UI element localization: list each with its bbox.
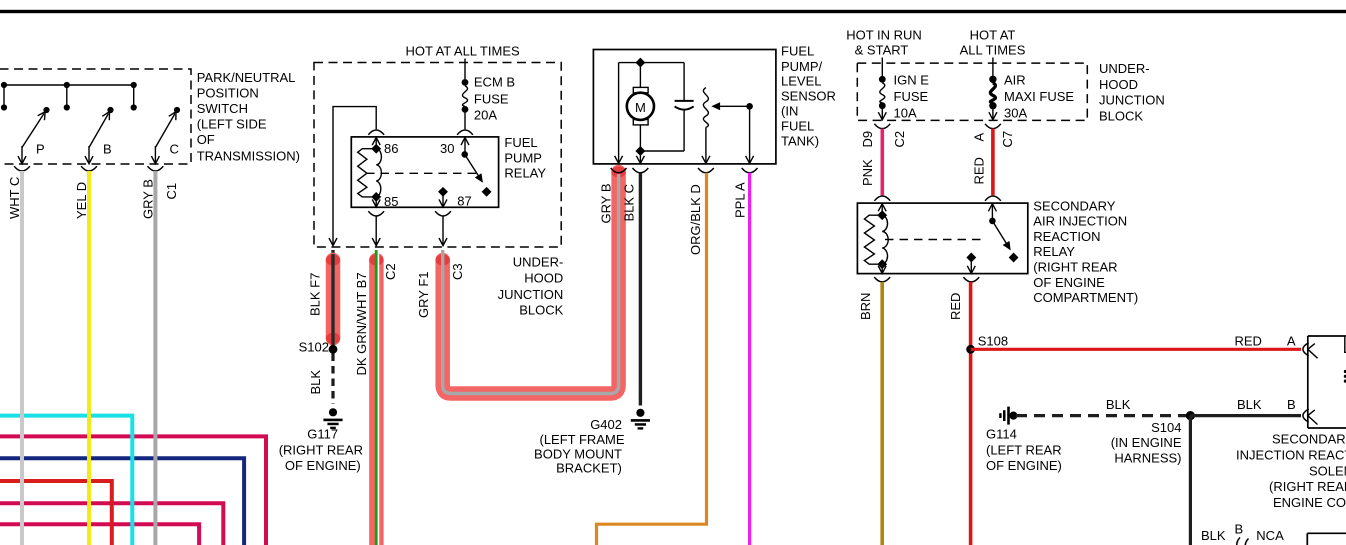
bus stub 3 — [133, 85, 135, 108]
svg-text:S108: S108 — [978, 333, 1008, 348]
svg-text:10A: 10A — [894, 106, 917, 121]
svg-text:UNDER-: UNDER- — [1099, 61, 1150, 76]
fuse AIR MAXI 30A — [989, 76, 996, 83]
fuse IGN E 10A — [879, 76, 886, 83]
svg-text:B: B — [1287, 397, 1296, 412]
wire 85 down — [375, 216, 377, 245]
wire red (horiz y481 corner x112) — [0, 481, 112, 545]
svg-text:ENGINE COMPARTMENT: ENGINE COMPARTMENT — [1273, 495, 1346, 510]
switch C terminal arrow — [154, 146, 156, 163]
svg-text:FUEL: FUEL — [781, 119, 814, 134]
secondary air injection reaction relay box — [857, 203, 1027, 274]
svg-text:(LEFT SIDE: (LEFT SIDE — [197, 117, 267, 132]
wire BRN — [880, 282, 884, 545]
svg-text:REACTION: REACTION — [1033, 229, 1100, 244]
wire PPL A — [748, 173, 751, 545]
svg-text:B: B — [103, 142, 112, 157]
svg-text:HOT AT ALL TIMES: HOT AT ALL TIMES — [406, 43, 520, 58]
svg-text:87: 87 — [457, 194, 471, 209]
switch P terminal arrow — [21, 146, 23, 163]
svg-text:SECONDARY: SECONDARY — [1033, 198, 1115, 213]
svg-text:TANK): TANK) — [781, 133, 819, 148]
svg-text:POSITION: POSITION — [197, 86, 259, 101]
wire fuse to relay 30 — [464, 109, 466, 129]
bus wire — [4, 84, 134, 86]
svg-text:BLK F7: BLK F7 — [308, 273, 323, 316]
svg-text:B: B — [1235, 522, 1244, 537]
wire crimson 3 (horiz y524 corner x199) — [0, 524, 199, 545]
svg-text:IGN E: IGN E — [894, 73, 930, 88]
wire YEL D — [87, 171, 91, 545]
secondary air injection reaction solenoid box — [1308, 336, 1346, 428]
svg-text:(IN ENGINE: (IN ENGINE — [1111, 435, 1182, 450]
svg-text:BLK: BLK — [1106, 397, 1131, 412]
svg-text:SWITCH: SWITCH — [197, 101, 248, 116]
svg-text:RED: RED — [1235, 333, 1262, 348]
connector cups at pump — [611, 168, 627, 173]
svg-text:M: M — [635, 100, 646, 115]
svg-text:S102: S102 — [299, 340, 329, 355]
relay switch input arrow — [988, 204, 996, 212]
svg-text:(RIGHT REAR: (RIGHT REAR — [279, 442, 363, 457]
svg-text:OF ENGINE): OF ENGINE) — [285, 458, 361, 473]
wire cyan (horiz y415 corner x132) — [0, 416, 132, 545]
relay terminal 86 arrow — [372, 138, 380, 146]
wire GRY F1 highlighted U-run — [443, 172, 619, 394]
highlighted circuit wires — [308, 167, 626, 545]
ground G402 — [631, 409, 650, 430]
bus stub 2 — [66, 85, 68, 108]
svg-text:FUEL: FUEL — [504, 135, 537, 150]
svg-text:HOT AT: HOT AT — [970, 27, 1016, 42]
wire DK GRN/WHT B7 highlighted — [369, 260, 384, 545]
svg-text:FUSE: FUSE — [474, 91, 509, 106]
svg-text:85: 85 — [384, 194, 398, 209]
relay terminal 85 — [371, 192, 381, 202]
feed wire — [464, 59, 466, 80]
wire ORG/BLK D — [597, 173, 707, 545]
svg-text:FUEL: FUEL — [781, 43, 814, 58]
splice S104 — [1186, 411, 1195, 420]
svg-text:PARK/NEUTRAL: PARK/NEUTRAL — [197, 70, 296, 85]
wire RED — [991, 129, 995, 196]
svg-text:NCA: NCA — [1256, 528, 1284, 543]
svg-text:RELAY: RELAY — [504, 166, 546, 181]
svg-text:C3: C3 — [450, 263, 465, 280]
svg-text:FUSE: FUSE — [894, 89, 929, 104]
level sensor resistor — [703, 88, 708, 128]
wiper arrow — [713, 105, 750, 107]
svg-text:BRN: BRN — [858, 293, 873, 320]
svg-text:RED: RED — [972, 157, 987, 184]
svg-text:C2: C2 — [383, 263, 398, 280]
wire RED A to solenoid — [971, 348, 1301, 351]
svg-text:A: A — [1287, 333, 1296, 348]
wire WHT C — [20, 171, 24, 545]
feed wire 1 — [881, 58, 883, 79]
right-hand circuit — [846, 27, 1346, 545]
svg-text:BLOCK: BLOCK — [519, 303, 563, 318]
svg-text:G114: G114 — [986, 427, 1017, 442]
svg-text:PUMP: PUMP — [504, 150, 542, 165]
relay coil (zigzag + scallops) — [358, 149, 377, 197]
junction block dashed box (right) — [857, 63, 1087, 120]
wire RED down — [969, 282, 973, 545]
wire navy (horiz y458 corner x244) — [0, 458, 244, 545]
splice S108 — [966, 345, 975, 354]
svg-text:RELAY: RELAY — [1033, 244, 1075, 259]
connector cup B — [81, 166, 97, 171]
park/neutral position switch assembly — [0, 69, 300, 545]
switch B terminal arrow — [88, 146, 90, 163]
connector A at solenoid — [1303, 343, 1309, 356]
connector cup 87 out — [435, 211, 451, 216]
connector B at solenoid — [1303, 409, 1309, 422]
svg-text:S104: S104 — [1151, 420, 1181, 435]
svg-text:OF ENGINE): OF ENGINE) — [986, 458, 1062, 473]
wire PNK — [880, 129, 884, 196]
wire BLK down from S104 — [1189, 416, 1192, 545]
relay coil — [864, 215, 882, 264]
junction block dashed box — [314, 63, 561, 248]
svg-text:30A: 30A — [1004, 106, 1027, 121]
svg-text:HOOD: HOOD — [1099, 77, 1138, 92]
relay terminal 30 arrow — [461, 138, 469, 146]
svg-text:GRY B: GRY B — [140, 179, 155, 219]
motor branch wire — [639, 63, 641, 163]
fuel pump relay box — [351, 137, 498, 207]
wire BLK B to solenoid — [1190, 414, 1301, 417]
splice S102 and ground G117 — [279, 340, 363, 474]
motor M1 — [633, 87, 648, 92]
svg-text:(LEFT REAR: (LEFT REAR — [986, 442, 1062, 457]
wiper wire PPL — [749, 106, 751, 163]
wire BLK dashed G114 to S104 — [1016, 414, 1190, 417]
wire GRY B — [153, 171, 157, 545]
exit arrow F7 — [329, 238, 337, 246]
left feed wire GRY B — [618, 63, 620, 163]
relay switch blade — [989, 218, 996, 225]
connector cups at relay top — [874, 196, 890, 201]
bottom right box — [1307, 533, 1346, 545]
wire BLK C — [639, 173, 642, 406]
svg-text:JUNCTION: JUNCTION — [498, 287, 564, 302]
svg-text:C2: C2 — [892, 131, 907, 148]
svg-text:UNDER-: UNDER- — [513, 254, 564, 269]
connector cup C — [148, 166, 164, 171]
svg-text:OF: OF — [197, 132, 215, 147]
underhood junction block (left) — [314, 43, 564, 317]
feed wire 2 — [992, 58, 994, 79]
svg-text:HOOD: HOOD — [524, 271, 563, 286]
svg-text:MAXI FUSE: MAXI FUSE — [1004, 89, 1074, 104]
svg-text:SENSOR: SENSOR — [781, 89, 836, 104]
svg-text:GRY F1: GRY F1 — [416, 272, 431, 318]
svg-text:GRY B: GRY B — [599, 184, 614, 224]
svg-text:C1: C1 — [164, 183, 179, 200]
fuse ECM B 20A — [462, 79, 469, 86]
svg-text:G402: G402 — [590, 417, 622, 432]
svg-text:HARNESS): HARNESS) — [1114, 450, 1181, 465]
svg-text:(RIGHT REAR: (RIGHT REAR — [1033, 260, 1117, 275]
relay terminal 87 — [438, 187, 448, 197]
svg-text:86: 86 — [384, 141, 398, 156]
svg-text:YEL D: YEL D — [74, 182, 89, 219]
svg-text:P: P — [36, 142, 45, 157]
wire relay 86 loop — [333, 107, 376, 245]
relay link dashed — [885, 239, 985, 241]
relay switch blade — [461, 151, 468, 158]
svg-text:BLK: BLK — [1237, 397, 1262, 412]
bus junction dots — [1, 82, 7, 88]
svg-text:A: A — [972, 133, 987, 142]
relay link dashed — [366, 172, 478, 174]
fuel pump / level sensor — [534, 43, 836, 545]
connector cup P — [14, 166, 30, 171]
wire 87 down — [442, 216, 444, 245]
svg-text:LEVEL: LEVEL — [781, 74, 821, 89]
svg-text:20A: 20A — [474, 107, 497, 122]
svg-text:AIR: AIR — [1004, 73, 1026, 88]
svg-text:COMPARTMENT): COMPARTMENT) — [1033, 290, 1138, 305]
svg-text:BLK: BLK — [308, 370, 323, 395]
svg-text:D9: D9 — [860, 131, 875, 148]
svg-text:30: 30 — [440, 141, 454, 156]
fuel pump box — [593, 50, 776, 164]
connector cup relay 30 — [457, 130, 473, 135]
svg-text:BODY MOUNT: BODY MOUNT — [534, 446, 622, 461]
svg-text:SOLENOID: SOLENOID — [1309, 463, 1346, 478]
svg-text:& START: & START — [855, 43, 909, 58]
bottom bus wire — [640, 150, 684, 152]
bus stub 1 — [3, 85, 5, 108]
svg-text:HOT IN RUN: HOT IN RUN — [846, 27, 922, 42]
capacitor C — [683, 63, 685, 100]
inline connector arcs — [1237, 538, 1240, 545]
relay coil input arrow — [878, 204, 886, 212]
top bus wire — [619, 62, 685, 64]
svg-text:AIR INJECTION: AIR INJECTION — [1033, 214, 1127, 229]
bottom-left crossing wires — [0, 416, 266, 545]
ground G114 — [999, 407, 1017, 425]
svg-text:TRANSMISSION): TRANSMISSION) — [197, 148, 300, 163]
wire crimson 2 (horiz y503 corner x223) — [0, 503, 223, 545]
svg-text:RED: RED — [948, 293, 963, 320]
svg-text:C7: C7 — [1000, 131, 1015, 148]
top border bar — [0, 10, 1346, 13]
svg-text:(IN: (IN — [781, 104, 798, 119]
switch B blade — [89, 114, 109, 148]
wire crimson 1 (horiz y436 corner x266) — [0, 436, 266, 545]
svg-text:BLK C: BLK C — [622, 184, 637, 222]
svg-text:G117: G117 — [307, 427, 338, 442]
wire BLK dashed to ground — [331, 354, 334, 405]
svg-text:(RIGHT REAR: (RIGHT REAR — [1269, 479, 1346, 494]
svg-text:INJECTION REACTION: INJECTION REACTION — [1236, 447, 1346, 462]
svg-text:BLK: BLK — [1201, 528, 1226, 543]
svg-text:DK GRN/WHT B7: DK GRN/WHT B7 — [354, 272, 369, 375]
svg-text:SECONDARY: SECONDARY — [1272, 432, 1346, 447]
switch P blade — [22, 114, 44, 148]
wire BLK F7 highlighted — [331, 250, 334, 349]
svg-text:OF ENGINE: OF ENGINE — [1033, 275, 1105, 290]
svg-text:C: C — [170, 142, 179, 157]
connector cups below JB — [874, 124, 890, 129]
fixed contact dots — [1, 104, 7, 110]
svg-text:JUNCTION: JUNCTION — [1099, 92, 1165, 107]
relay output terminal — [966, 253, 976, 263]
svg-text:(LEFT FRAME: (LEFT FRAME — [540, 432, 625, 447]
svg-text:ORG/BLK D: ORG/BLK D — [688, 184, 703, 255]
svg-text:BLOCK: BLOCK — [1099, 109, 1143, 124]
splice S102 — [329, 345, 338, 354]
connector cup relay 86 — [368, 130, 384, 135]
switch C blade — [155, 114, 175, 148]
svg-text:WHT C: WHT C — [7, 177, 22, 219]
park/neutral switch dashed box — [0, 69, 191, 164]
ground G117 — [323, 408, 342, 429]
svg-text:PNK: PNK — [860, 159, 875, 186]
svg-text:ALL TIMES: ALL TIMES — [960, 43, 1026, 58]
connector cup 85 out — [368, 211, 384, 216]
svg-text:BRACKET): BRACKET) — [556, 461, 622, 476]
svg-text:PUMP/: PUMP/ — [781, 59, 823, 74]
connector cups below relay — [874, 277, 890, 282]
svg-text:ECM B: ECM B — [474, 75, 515, 90]
svg-text:PPL A: PPL A — [733, 182, 748, 218]
